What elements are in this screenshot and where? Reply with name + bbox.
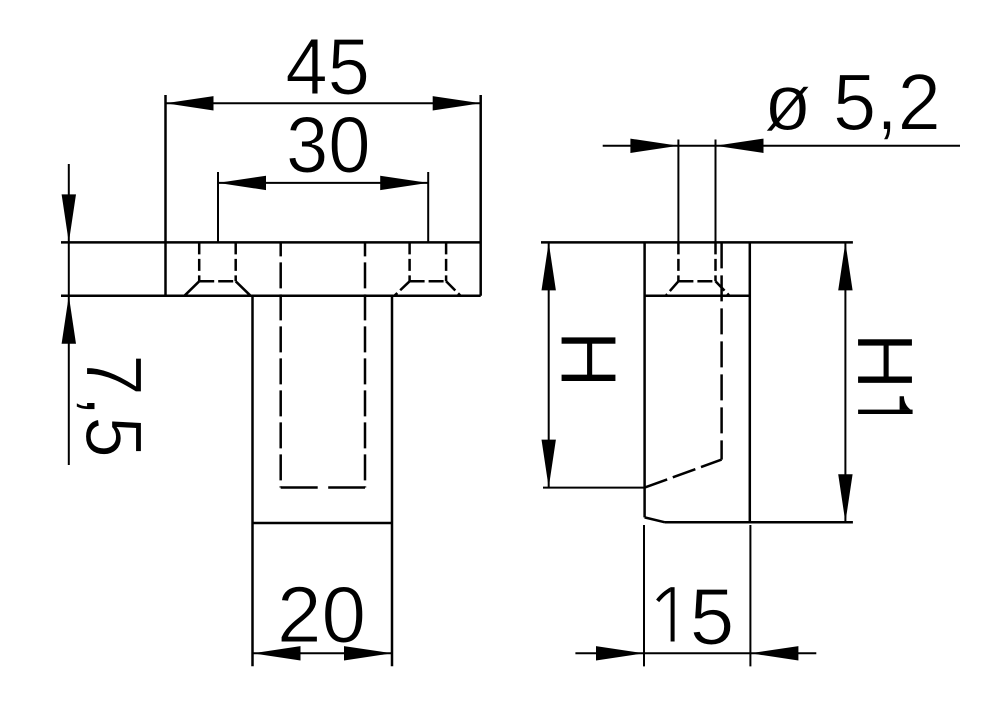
svg-text:20: 20: [277, 570, 366, 659]
svg-text:H: H: [544, 330, 633, 388]
svg-text:7,5: 7,5: [69, 354, 158, 457]
svg-text:30: 30: [286, 99, 371, 189]
svg-text:5: 5: [690, 572, 735, 661]
svg-text:H: H: [841, 332, 930, 390]
svg-text:45: 45: [285, 21, 370, 111]
svg-text:ø 5,2: ø 5,2: [764, 57, 941, 146]
